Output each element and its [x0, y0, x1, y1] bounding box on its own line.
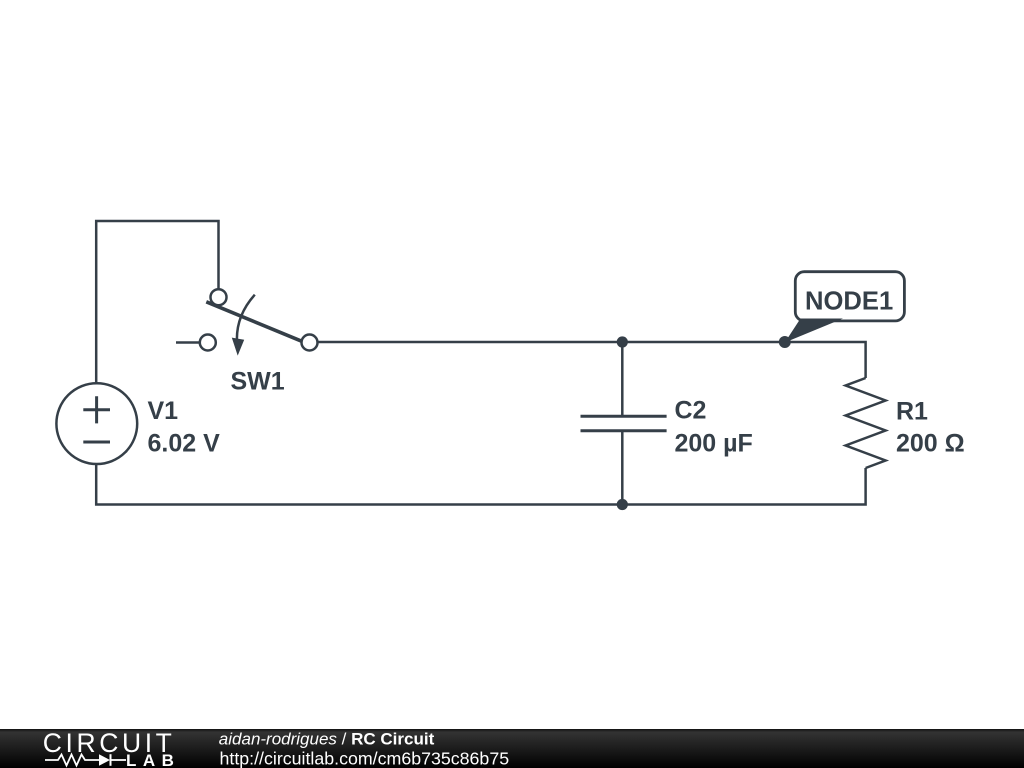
- svg-text:aidan-rodrigues / RC Circuit: aidan-rodrigues / RC Circuit: [219, 730, 435, 749]
- svg-text:6.02 V: 6.02 V: [148, 429, 221, 457]
- CircuitLab logo resistor-diode squiggle: [45, 754, 126, 766]
- label C2 value: [675, 397, 753, 458]
- wire from V1 + terminal up and over to switch SW1: [96, 221, 218, 384]
- wire capacitor C2 top lead: [621, 342, 624, 416]
- NODE1 callout: [785, 272, 905, 343]
- label SW1: [231, 368, 285, 396]
- wire from switch right terminal along top to R1: [317, 342, 866, 378]
- node dot NODE1 anchor: [779, 336, 791, 348]
- footer bar: [0, 729, 1024, 768]
- svg-text:200 µF: 200 µF: [675, 429, 753, 457]
- junction dot at C2 top: [617, 336, 628, 347]
- switch SW1: [200, 289, 318, 355]
- capacitor C2: [581, 416, 667, 431]
- svg-text:LAB: LAB: [126, 751, 180, 768]
- resistor R1: [846, 378, 886, 468]
- svg-text:200 Ω: 200 Ω: [896, 429, 965, 457]
- svg-text:NODE1: NODE1: [805, 287, 893, 315]
- voltage source V1: [56, 383, 137, 464]
- svg-text:V1: V1: [148, 397, 179, 425]
- label V1 value: [148, 397, 221, 457]
- svg-text:R1: R1: [896, 398, 928, 426]
- junction dot at C2 bottom: [617, 499, 628, 510]
- svg-text:http://circuitlab.com/cm6b735c: http://circuitlab.com/cm6b735c86b75: [220, 748, 510, 768]
- CircuitLab logo LAB text: [126, 751, 180, 768]
- footer title text: [219, 730, 509, 768]
- wire capacitor C2 bottom lead: [621, 431, 624, 505]
- CircuitLab logo CIRCUIT text: [43, 728, 176, 758]
- label R1 value: [896, 398, 965, 458]
- wire bottom return from R1 to V1 - terminal: [96, 464, 865, 505]
- wire left stub of switch open contact: [176, 341, 201, 344]
- svg-text:SW1: SW1: [231, 368, 285, 396]
- svg-text:C2: C2: [675, 397, 707, 425]
